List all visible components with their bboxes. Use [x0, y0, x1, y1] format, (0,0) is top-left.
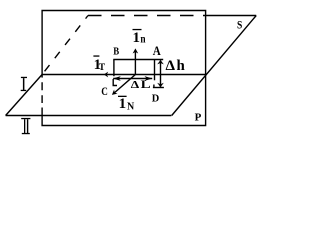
svg-text:T: T [99, 63, 106, 73]
svg-text:D: D [152, 93, 160, 105]
svg-text:P: P [195, 112, 202, 124]
svg-text:1: 1 [119, 96, 127, 112]
svg-text:S: S [237, 19, 242, 31]
svg-text:L: L [141, 79, 151, 91]
svg-text:Δ: Δ [166, 58, 176, 74]
svg-text:C: C [101, 84, 108, 98]
svg-text:n: n [140, 32, 145, 46]
svg-text:B: B [113, 46, 119, 58]
svg-text:1: 1 [133, 30, 141, 46]
svg-text:A: A [153, 44, 161, 58]
svg-text:Δ: Δ [131, 79, 140, 91]
svg-text:N: N [127, 102, 135, 113]
svg-text:h: h [177, 58, 186, 74]
